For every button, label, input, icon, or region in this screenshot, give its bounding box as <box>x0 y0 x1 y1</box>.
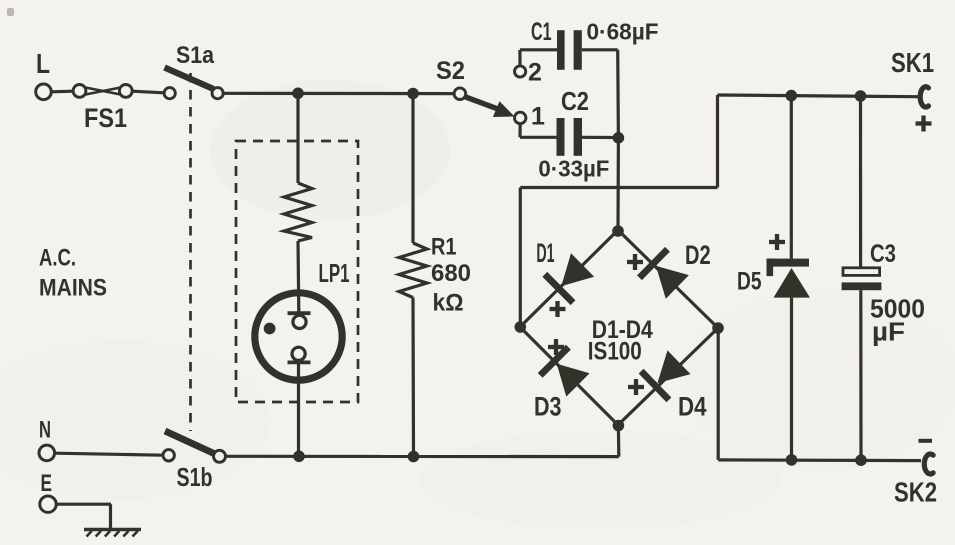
svg-text:D5: D5 <box>737 268 762 296</box>
svg-text:C1: C1 <box>531 18 552 46</box>
polarity + at D1 <box>550 301 566 317</box>
svg-text:kΩ: kΩ <box>433 290 464 317</box>
wire <box>582 48 618 51</box>
wire <box>518 50 521 66</box>
svg-text:MAINS: MAINS <box>39 275 107 302</box>
svg-text:A.C.: A.C. <box>39 245 76 272</box>
wire <box>518 124 521 138</box>
wire <box>132 91 164 93</box>
node bridge top <box>612 225 624 237</box>
svg-text:C2: C2 <box>561 86 589 116</box>
svg-text:IS100: IS100 <box>588 338 642 366</box>
wire <box>859 290 862 460</box>
node D5 top junction <box>786 90 798 102</box>
node C3 top junction <box>855 90 867 102</box>
svg-text:µF: µF <box>872 319 905 347</box>
node junction LP1 bottom <box>293 451 305 463</box>
wire bridge side BR <box>618 328 718 425</box>
wire bridge - output <box>717 328 720 460</box>
wire live rail <box>223 92 454 95</box>
svg-text:2: 2 <box>528 59 542 87</box>
resistor R1 <box>399 243 427 298</box>
switch S1a <box>164 88 175 99</box>
wire <box>56 503 111 506</box>
polarity + at D5 <box>769 234 785 250</box>
svg-text:LP1: LP1 <box>319 260 350 288</box>
wire bridge side BL <box>520 327 618 425</box>
svg-text:0·68µF: 0·68µF <box>587 19 659 45</box>
node bridge bottom <box>613 420 625 432</box>
svg-text:D1: D1 <box>536 238 554 268</box>
terminal N <box>39 445 55 461</box>
polarity - at SK2 <box>919 439 933 443</box>
wire AC feed to bridge <box>616 138 620 230</box>
wire <box>411 94 414 244</box>
LP1 bottom electrode <box>292 347 305 360</box>
svg-text:S1a: S1a <box>176 42 215 69</box>
diode D3 <box>540 347 568 375</box>
node bridge left <box>515 321 527 333</box>
svg-text:C3: C3 <box>870 240 896 268</box>
wire <box>617 426 621 457</box>
wire - rail <box>718 458 921 462</box>
wire <box>411 298 415 457</box>
svg-text:S2: S2 <box>436 57 465 85</box>
polarity + at D3 <box>548 339 564 355</box>
switch S2 wiper arrow <box>465 97 502 111</box>
svg-text:E: E <box>41 470 53 497</box>
terminal L <box>36 84 52 100</box>
LP1 gas dot <box>264 323 276 335</box>
switch S1b <box>163 450 174 461</box>
wire bridge side TL <box>520 230 618 327</box>
socket SK1 <box>920 87 928 107</box>
svg-text:N: N <box>39 417 51 444</box>
polarity + at D4 <box>628 379 644 395</box>
capacitor C3 <box>843 268 880 276</box>
zener D5 <box>767 259 810 267</box>
wire <box>55 453 163 455</box>
capacitor C2 plates <box>557 118 565 156</box>
wire <box>582 136 613 139</box>
node C2 output junction <box>613 132 625 144</box>
svg-text:680: 680 <box>431 260 471 287</box>
svg-text:SK2: SK2 <box>894 477 937 508</box>
LP1 dashed enclosure <box>236 141 358 402</box>
svg-text:L: L <box>36 48 50 79</box>
node C3 bottom junction <box>855 454 867 466</box>
capacitor C1 plates <box>557 30 565 70</box>
diode D1 <box>545 274 573 302</box>
wire bridge + output <box>519 188 522 328</box>
resistor (LP1 series) <box>284 183 312 241</box>
ganged-switch linkage (dashed) <box>189 73 192 431</box>
svg-text:R1: R1 <box>431 234 457 261</box>
switch S2 pivot <box>454 88 466 100</box>
wire bridge side TR <box>618 230 718 328</box>
node bridge right <box>712 322 724 334</box>
diode D2 <box>640 249 668 278</box>
svg-text:D3: D3 <box>534 392 562 422</box>
svg-text:1: 1 <box>531 103 545 131</box>
LP1 top electrode <box>288 311 311 315</box>
wire neutral rail <box>226 455 619 459</box>
node junction R1 bottom <box>408 451 420 463</box>
svg-text:S1b: S1b <box>177 462 213 492</box>
polarity + at D2 <box>627 254 643 270</box>
node junction LP1 top <box>292 88 304 100</box>
svg-text:D2: D2 <box>685 240 711 270</box>
neon lamp LP1 bulb <box>255 293 342 380</box>
node junction R1 top <box>407 88 419 100</box>
svg-text:SK1: SK1 <box>891 47 934 78</box>
S2 contact 2 <box>515 66 526 77</box>
wire <box>52 90 74 94</box>
wire <box>790 298 793 460</box>
terminal E <box>40 496 56 512</box>
wire <box>296 93 299 183</box>
polarity + at SK1 <box>916 116 932 132</box>
wire <box>859 96 862 268</box>
node D5 bottom junction <box>786 454 798 466</box>
wire <box>297 364 300 457</box>
wire <box>790 96 793 259</box>
ground symbol <box>84 528 141 531</box>
diode D4 <box>641 371 669 400</box>
S2 contact 1 <box>515 112 526 123</box>
svg-text:D4: D4 <box>678 392 707 422</box>
socket SK2 <box>924 454 933 474</box>
svg-text:FS1: FS1 <box>84 103 127 133</box>
fuse FS1 <box>73 85 86 98</box>
wire + rail <box>718 95 919 97</box>
wire <box>296 241 300 312</box>
svg-text:0·33µF: 0·33µF <box>538 156 609 182</box>
